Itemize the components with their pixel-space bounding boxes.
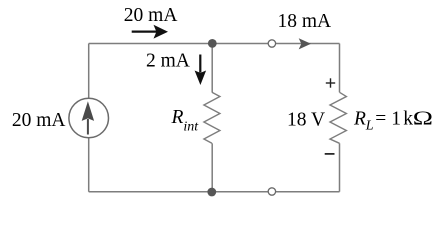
svg-text:20 mA: 20 mA [12, 110, 66, 131]
svg-text:18 mA: 18 mA [278, 11, 332, 32]
wire top [89, 43, 340, 45]
wire middle branch lower [211, 143, 213, 191]
wire right lower [339, 143, 341, 191]
wire bottom [89, 191, 340, 193]
svg-text:2 mA: 2 mA [146, 51, 190, 72]
node dot bottom [207, 188, 216, 197]
wire middle branch upper [211, 44, 213, 93]
node dot top [208, 39, 217, 48]
current source I1 20 mA [69, 98, 109, 138]
resistor Rint zigzag [204, 92, 220, 143]
arrow 2 mA down [195, 55, 207, 86]
terminal circle bottom [268, 188, 275, 195]
svg-text:20 mA: 20 mA [124, 5, 178, 26]
terminal circle top [268, 40, 275, 47]
arrow 18 mA on wire [299, 38, 311, 49]
wire right upper [339, 44, 341, 93]
arrow 20 mA right [132, 25, 168, 39]
wire left [88, 44, 90, 192]
plus sign [326, 78, 335, 87]
minus sign [325, 153, 335, 155]
svg-text:18 V: 18 V [287, 109, 325, 130]
resistor RL zigzag [330, 92, 346, 143]
